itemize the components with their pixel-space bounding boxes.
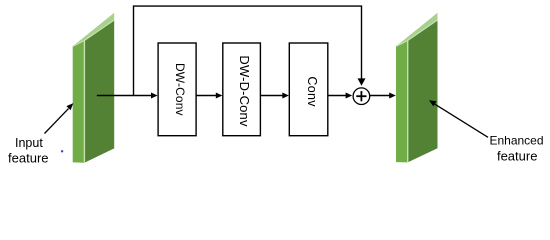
box Conv [289, 43, 328, 136]
adder circle [353, 88, 370, 105]
front strip [73, 40, 85, 162]
plus sign [356, 95, 366, 97]
svg-text:DW-D-Conv: DW-D-Conv [237, 55, 252, 127]
pale top edge [396, 20, 438, 46]
pale vertical separator [83, 41, 85, 163]
top band [73, 13, 115, 46]
arrowhead into Conv [282, 93, 289, 99]
blue dot [61, 150, 63, 152]
box DW-D-Conv [223, 43, 261, 136]
svg-text:Conv: Conv [305, 76, 319, 107]
svg-text:feature: feature [8, 151, 48, 166]
wire slab to DW-Conv [97, 95, 151, 97]
skip arrowhead into adder [358, 78, 366, 85]
input feature slab [73, 13, 115, 163]
skip connection wire [134, 6, 362, 95]
svg-text:Input: Input [15, 136, 43, 150]
enhanced annotation arrow [434, 103, 489, 137]
top band [396, 13, 438, 46]
dark face [408, 20, 438, 163]
pale vertical separator [407, 41, 409, 163]
svg-text:DW-Conv: DW-Conv [173, 63, 187, 116]
wire DW-D-Conv to Conv [260, 95, 282, 97]
arrowhead into enhanced slab [389, 93, 396, 99]
wire DW-Conv to DW-D-Conv [196, 95, 216, 97]
pale top edge [73, 20, 115, 46]
svg-text:feature: feature [497, 148, 537, 163]
arrowhead into adder [346, 93, 353, 99]
enhanced feature slab [396, 13, 438, 163]
input annotation arrow [45, 109, 69, 134]
dark face [84, 20, 114, 163]
wire Conv to adder [328, 95, 346, 97]
wire adder to enhanced slab [370, 95, 390, 97]
arrowhead into DW-Conv [151, 93, 158, 99]
arrowhead into DW-D-Conv [216, 93, 223, 99]
front strip [396, 40, 408, 162]
box DW-Conv [158, 43, 196, 136]
svg-text:Enhanced: Enhanced [489, 133, 543, 147]
